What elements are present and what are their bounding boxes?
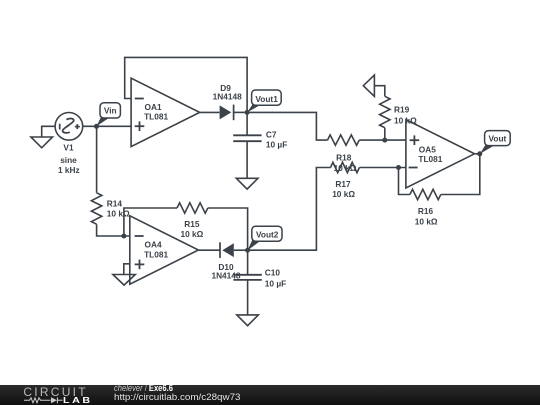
- resistor R16: [410, 189, 441, 199]
- svg-text:R16: R16: [418, 206, 434, 216]
- wire OA4 output to D10: [198, 249, 220, 251]
- wire OA1 output to D9: [200, 111, 220, 113]
- wire R14 to OA4 - input: [97, 224, 130, 236]
- svg-text:C10: C10: [265, 268, 281, 278]
- OA5 plus pin glyph: [410, 135, 420, 145]
- CircuitLab logo squiggle: [24, 396, 64, 405]
- svg-text:OA4: OA4: [145, 240, 162, 250]
- node Vin junction: [94, 124, 99, 129]
- ground (V1): [31, 137, 53, 148]
- node Vout1 flag: [247, 90, 281, 112]
- op-amp OA4 TL081: [130, 216, 199, 284]
- resistor R15: [177, 203, 208, 213]
- wire V1 negative terminal to ground: [42, 126, 56, 137]
- wire R17 to OA5 - input: [359, 167, 406, 169]
- node Vout junction: [477, 151, 482, 156]
- wire R16 to OA5 - junction: [399, 168, 410, 195]
- footer bar: [0, 385, 540, 405]
- ground flag (rotated, above R19): [363, 75, 374, 96]
- svg-text:1N4148: 1N4148: [211, 271, 240, 281]
- svg-text:R19: R19: [394, 104, 410, 114]
- OA4 plus pin glyph: [135, 260, 145, 270]
- ground (C10): [237, 315, 259, 326]
- voltage source V1 sine 1 kHz: [55, 113, 83, 141]
- svg-text:sine: sine: [60, 155, 77, 165]
- svg-text:OA1: OA1: [145, 102, 162, 112]
- resistor R18: [328, 135, 360, 145]
- OA4 minus pin glyph: [135, 235, 144, 237]
- ground (C7): [236, 178, 258, 189]
- svg-text:10 kΩ: 10 kΩ: [415, 217, 438, 227]
- node Vout2 flag: [248, 226, 282, 250]
- CircuitLab logo CIRCUIT: [23, 385, 87, 399]
- OA1 minus pin glyph: [135, 98, 144, 100]
- node Vout1 junction: [245, 110, 250, 115]
- resistor R19: [384, 128, 386, 140]
- node Vin flag: [97, 103, 121, 127]
- svg-text:R14: R14: [107, 199, 123, 209]
- svg-text:TL081: TL081: [418, 154, 442, 164]
- wire junction up to R15: [124, 208, 177, 236]
- resistor R17: [331, 162, 360, 172]
- wire Vout2 down to C10: [247, 250, 249, 274]
- wire OA5 output: [475, 153, 480, 155]
- wire D10 to Vout2 node: [234, 249, 248, 251]
- svg-text:10 µF: 10 µF: [265, 278, 286, 288]
- node OA5 inverting junction: [396, 165, 401, 170]
- CircuitLab logo LAB: [63, 395, 93, 405]
- wire Vin node down to R14: [96, 126, 98, 193]
- wire R15 to Vout2 node: [208, 208, 248, 250]
- wire Vout1 node to R18 branch: [247, 112, 327, 140]
- resistor R14: [91, 193, 101, 224]
- wire Vout down to R16: [441, 154, 480, 195]
- wire C10 to ground: [247, 280, 249, 315]
- diode D10 1N4148 (pointing left): [220, 242, 234, 258]
- svg-text:Vout1: Vout1: [255, 94, 278, 104]
- wire OA1 feedback loop: [125, 57, 247, 112]
- svg-text:R17: R17: [335, 179, 351, 189]
- wire D9 to Vout1 node: [234, 111, 248, 113]
- op-amp OA1 TL081: [131, 78, 200, 146]
- node Vout flag: [480, 131, 510, 154]
- node Vout2 junction: [245, 248, 250, 253]
- svg-text:Vin: Vin: [104, 106, 117, 116]
- svg-text:1N4148: 1N4148: [213, 92, 242, 102]
- svg-text:OA5: OA5: [419, 144, 436, 154]
- wire R19 to flag ground: [374, 86, 384, 97]
- svg-text:Vout2: Vout2: [256, 230, 279, 240]
- svg-text:10 kΩ: 10 kΩ: [180, 229, 203, 239]
- svg-text:10 kΩ: 10 kΩ: [107, 209, 130, 219]
- svg-text:V1: V1: [63, 143, 74, 153]
- svg-text:1 kHz: 1 kHz: [58, 165, 80, 175]
- wire C7 to ground: [246, 141, 248, 178]
- OA1 plus pin glyph: [135, 121, 145, 131]
- svg-text:TL081: TL081: [144, 111, 168, 121]
- wire Vout2 node to R17 branch: [248, 168, 331, 251]
- svg-text:C7: C7: [266, 130, 277, 140]
- wire V1 to OA1 + input: [83, 125, 131, 127]
- capacitor C10: [233, 275, 261, 280]
- OA5 minus pin glyph: [409, 167, 418, 169]
- svg-text:Vout: Vout: [488, 134, 506, 144]
- credit text: [114, 383, 173, 393]
- svg-text:R15: R15: [184, 219, 200, 229]
- op-amp OA5 TL081: [406, 120, 475, 188]
- svg-text:R18: R18: [336, 152, 352, 162]
- node OA4 inverting junction: [121, 234, 126, 239]
- ground (OA4 +): [113, 275, 135, 286]
- svg-text:10 µF: 10 µF: [266, 139, 287, 149]
- wire R18 to OA5 + input: [359, 139, 406, 141]
- wire OA4 + input to ground: [124, 264, 130, 275]
- node R18/R19 junction: [382, 138, 387, 143]
- svg-text:10 kΩ: 10 kΩ: [394, 116, 417, 126]
- capacitor C7: [233, 135, 261, 141]
- diode D9 1N4148 (pointing right): [220, 105, 234, 121]
- svg-text:10 kΩ: 10 kΩ: [334, 163, 357, 173]
- svg-text:10 kΩ: 10 kΩ: [332, 189, 355, 199]
- wire Vout1 down to C7: [246, 112, 248, 135]
- svg-text:TL081: TL081: [144, 249, 168, 259]
